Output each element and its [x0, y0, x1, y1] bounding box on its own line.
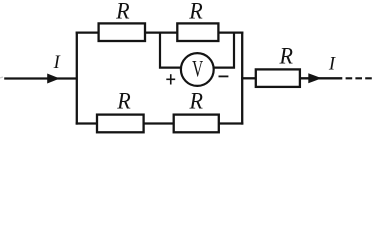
svg-text:R: R — [188, 89, 202, 114]
resistor R3 (bottom left) — [97, 115, 144, 133]
wire: left node vertical — [76, 32, 78, 125]
wire: voltmeter right lead — [213, 33, 234, 68]
wire: input lead (left) — [4, 77, 77, 79]
wire: output lead after R5 — [300, 77, 342, 79]
resistor R5 (output) — [256, 69, 300, 87]
current arrow (output) — [308, 73, 322, 83]
wire: top branch — [76, 31, 244, 33]
wire: output lead from right node to R5 — [241, 77, 256, 79]
svg-text:R: R — [188, 0, 202, 23]
wire: voltmeter left lead — [160, 33, 182, 68]
resistor R4 (bottom right) — [174, 115, 219, 133]
voltmeter U1 (meter body) — [181, 53, 214, 86]
svg-text:R: R — [115, 0, 129, 23]
label − (voltmeter polarity) — [219, 75, 229, 77]
wire: faint dash at left margin — [0, 77, 3, 78]
svg-text:V: V — [192, 56, 203, 81]
resistor R1 (top left) — [99, 23, 145, 41]
svg-text:R: R — [116, 89, 130, 114]
wire: dashed continuation — [346, 77, 373, 79]
resistor R2 (top right) — [177, 23, 218, 41]
wire: bottom branch — [76, 122, 244, 124]
wire: right node vertical — [241, 32, 243, 125]
label + (voltmeter polarity) — [166, 74, 175, 84]
svg-text:I: I — [53, 53, 61, 73]
svg-text:I: I — [328, 55, 336, 75]
current arrow (input) — [47, 74, 60, 84]
svg-text:R: R — [279, 43, 293, 68]
